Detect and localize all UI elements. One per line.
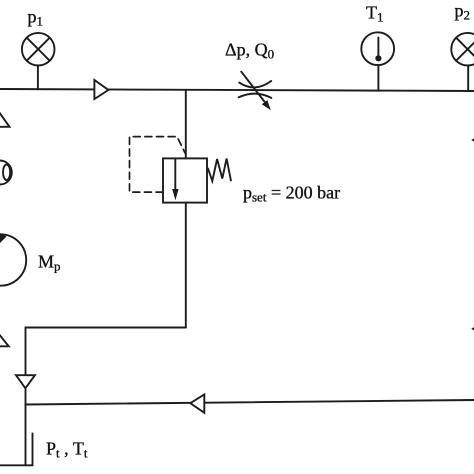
wire: bottom return line T [26, 400, 474, 405]
relief valve pilot line (dashed) [130, 137, 186, 193]
cut-off arrowhead at right edge (upper) [471, 137, 474, 144]
relief valve spring [208, 159, 231, 182]
throttle adjustment arrow (diagonal with filled head) [241, 72, 265, 103]
svg-text:pset = 200 bar: pset = 200 bar [243, 183, 340, 205]
wire: left vertical line through check valve to tank [25, 328, 27, 466]
wire: T1 gauge stem [377, 65, 379, 91]
pump circle remnant (cut at left edge) [0, 161, 12, 185]
wire: p2 gauge stem [467, 65, 469, 91]
svg-text:p2: p2 [455, 1, 471, 23]
svg-text:T1: T1 [366, 3, 384, 25]
wire: top pressure line P [0, 89, 474, 91]
rotation arrowhead on motor circle [0, 232, 7, 245]
relief valve body [163, 158, 207, 202]
wire: p1 gauge stem [37, 65, 39, 89]
pump triangle remnant upper (cut at left edge) [0, 109, 10, 127]
svg-text:p1: p1 [28, 7, 44, 29]
wire: relief valve outlet down [185, 203, 187, 328]
relief valve internal flow arrow [174, 158, 176, 190]
wire: vertical drop from top line to relief valve [185, 90, 187, 158]
pump triangle remnant lower (cut at left edge) [0, 332, 9, 346]
flow direction arrow on top line (pump output) [94, 80, 108, 99]
adjustable throttle valve (two arcs) [239, 81, 271, 87]
pressure gauge p1 [22, 33, 55, 66]
svg-text:Mp: Mp [38, 252, 61, 274]
cut-off arrowhead at right edge (lower) [471, 325, 474, 332]
flow arrow on return line (pointing left) [190, 395, 204, 413]
svg-text:Δp, Q0: Δp, Q0 [225, 40, 274, 62]
electric motor Mp (cut at left edge) [0, 234, 26, 285]
wire: horizontal mid line to left [26, 327, 186, 329]
pressure gauge p2 (cut at right edge) [451, 33, 474, 66]
svg-text:Pt , Tt: Pt , Tt [46, 439, 88, 461]
check valve (triangle pointing down) [16, 375, 35, 388]
temperature gauge T1 [361, 32, 394, 65]
tank symbol (cut off at left edge) [0, 464, 33, 466]
